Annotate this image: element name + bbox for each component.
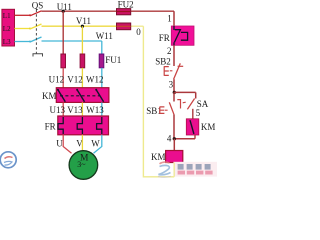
wire branch bottom [174,138,195,140]
wire V drop [81,26,83,54]
svg-text:SB2: SB2 [155,57,171,67]
svg-text:3~: 3~ [77,160,86,169]
svg-text:KM: KM [42,91,57,101]
wire W drop [101,41,103,54]
wire W13 segment [101,102,103,116]
wire 0 segment to corner [131,25,144,27]
wire node4 to coil [173,139,175,151]
wire L1 stub [15,14,31,16]
wire V12 segment [81,68,83,88]
contactor KM aux contact [190,120,194,134]
wire KM aux lower [194,135,196,139]
wire U13 segment [62,102,64,116]
svg-text:V12: V12 [67,75,83,85]
relay FR heater element1 [58,117,63,134]
svg-text:1: 1 [167,13,172,23]
relay FR heater element2 [77,117,82,134]
motor M [69,151,98,180]
relay FR contact box [171,26,194,45]
svg-text:0: 0 [136,27,141,37]
svg-text:V11: V11 [76,16,91,26]
svg-text:FR: FR [159,33,170,43]
wire 0 control return (pale yellow) [143,26,174,177]
svg-text:KM: KM [201,122,216,132]
svg-text:V13: V13 [67,105,83,115]
switch QS linkage dashed [35,10,37,54]
wire L3 after QS [42,40,102,42]
node 3 junction [173,91,176,94]
contactor KM aux box [186,119,199,135]
switch SA dash [183,101,186,104]
svg-text:L3: L3 [3,38,11,46]
node V11 [76,16,91,28]
wire SB1 lower [173,114,175,139]
fuse FU1 pole1 [61,54,66,68]
wire control phase down [173,11,175,26]
node 4 junction [173,137,176,140]
wire W12 segment [101,68,103,88]
fuse FU1 pole3 [99,54,104,68]
relay FR heater box [58,116,109,135]
svg-text:FR: FR [45,122,56,132]
wire branch top [174,91,195,93]
wire L3 stub [15,41,31,43]
switch QS handle [33,54,43,57]
switch SA handle mark [177,99,180,109]
svg-text:3: 3 [169,80,174,90]
svg-text:4: 4 [167,133,172,143]
contactor KM main box [56,88,109,103]
svg-text:U13: U13 [50,105,66,115]
watermark text row2 [178,171,213,175]
wire L2 after QS [42,25,117,27]
node U11 [57,2,72,13]
fuse FU2 lower [117,23,131,30]
button SB2 symbol [164,63,183,79]
wire L2 stub [15,28,31,30]
contactor KM main contact3 [95,89,103,102]
wire V to motor [81,135,83,151]
wire coil to 0 return [173,163,175,177]
svg-text:5: 5 [196,108,201,118]
wire U drop [62,11,64,54]
svg-text:U12: U12 [49,75,65,85]
relay FR heater element3 [97,117,102,134]
watermark logo [158,162,171,177]
svg-text:FU1: FU1 [105,55,121,65]
watermark badge bottom-left [0,152,16,168]
wire FR to SB2 [173,45,175,66]
wire U12 segment [62,68,64,88]
contactor KM linkage dashed [60,95,100,97]
wire V13 segment [81,102,83,116]
relay FR contact symbol [174,26,188,45]
svg-text:2: 2 [167,46,172,56]
watermark background [173,162,217,177]
source box L1 L2 L3 [2,9,15,46]
fuse FU1 pole2 [80,54,85,68]
wire U to motor [63,135,71,153]
contactor KM main contact1 [57,89,65,102]
wire L1 after QS [42,10,175,12]
wire W to motor [94,135,102,153]
svg-text:W13: W13 [86,105,104,115]
wire SA to KM aux [192,109,194,119]
svg-text:L1: L1 [3,12,11,20]
switch QS blade pole3 [29,37,42,43]
watermark text row1 [178,164,211,170]
svg-text:L2: L2 [3,25,11,33]
contactor KM main contact2 [76,89,84,102]
svg-text:W: W [91,139,100,149]
switch QS blade pole2 [29,24,42,30]
coil KM box [166,151,183,163]
wire SB2 to node3 [173,79,175,92]
switch QS blade pole1 [29,11,42,16]
svg-text:QS: QS [32,0,44,10]
wire branch right upper [195,92,197,98]
svg-text:W11: W11 [96,31,113,41]
svg-text:KM: KM [151,152,166,162]
wire SB1 upper [173,92,175,101]
svg-text:U: U [56,139,63,149]
fuse FU2 upper [117,9,131,15]
button SB1 symbol [160,102,174,114]
switch SA blade [187,99,194,110]
svg-text:W12: W12 [86,75,104,85]
